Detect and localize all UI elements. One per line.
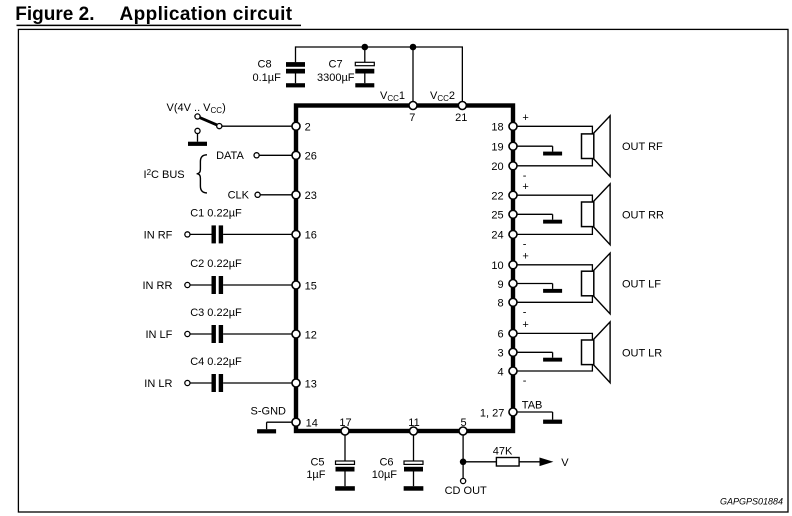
svg-text:4: 4 bbox=[497, 366, 503, 378]
pin 12 bbox=[292, 329, 317, 341]
IC body (power amplifier) bbox=[296, 106, 513, 432]
label C6 10µF bbox=[372, 457, 398, 481]
svg-text:OUT LF: OUT LF bbox=[622, 279, 661, 291]
wire to Vcc2 pin 21 bbox=[461, 47, 463, 106]
svg-text:7: 7 bbox=[409, 112, 415, 124]
pin 2 bbox=[292, 122, 311, 134]
junction at C7 top bbox=[362, 44, 369, 51]
svg-text:S-GND: S-GND bbox=[251, 406, 287, 418]
pin 20 bbox=[491, 161, 517, 173]
speaker LS1 bbox=[582, 116, 611, 177]
wire pin 3 to ground bbox=[513, 352, 553, 357]
capacitor C5 (electrolytic) bbox=[336, 461, 355, 486]
svg-text:C6: C6 bbox=[379, 457, 393, 469]
ground (switch) bbox=[188, 142, 207, 146]
svg-text:IN LF: IN LF bbox=[145, 329, 172, 341]
pin 15 bbox=[292, 280, 317, 292]
pin 10 bbox=[491, 260, 517, 272]
pin 22 bbox=[491, 191, 517, 203]
wire junction to R1 bbox=[463, 461, 496, 463]
title: Figure 2. Application circuit bbox=[15, 4, 301, 26]
capacitor C8 bbox=[286, 62, 305, 83]
pin 1, 27 (TAB) bbox=[480, 407, 517, 419]
label C5 1µF bbox=[306, 457, 325, 481]
svg-text:9: 9 bbox=[497, 279, 503, 291]
svg-text:CLK: CLK bbox=[228, 190, 250, 202]
svg-text:3300µF: 3300µF bbox=[317, 72, 355, 84]
svg-text:20: 20 bbox=[491, 161, 503, 173]
pin 24 bbox=[491, 230, 517, 242]
svg-text:2: 2 bbox=[305, 122, 311, 134]
pin 25 bbox=[491, 210, 517, 222]
svg-text:24: 24 bbox=[491, 230, 503, 242]
capacitor C4 bbox=[212, 374, 224, 392]
capacitor C1 bbox=[212, 225, 224, 243]
capacitor C2 bbox=[212, 276, 224, 294]
svg-text:+: + bbox=[522, 251, 528, 263]
svg-text:19: 19 bbox=[491, 142, 503, 154]
svg-text:OUT RR: OUT RR bbox=[622, 209, 664, 221]
wire pin 25 to ground bbox=[513, 214, 553, 219]
svg-text:C2 0.22µF: C2 0.22µF bbox=[190, 258, 242, 270]
svg-text:11: 11 bbox=[408, 417, 419, 429]
wire C8 top lead bbox=[295, 46, 297, 62]
wire DATA to pin 26 bbox=[259, 154, 294, 156]
pin 4 bbox=[497, 366, 517, 378]
terminal IN RR bbox=[185, 282, 190, 287]
pin 8 bbox=[497, 298, 517, 310]
wire C7 top lead bbox=[364, 47, 366, 63]
pin 21 bbox=[455, 102, 467, 124]
pin 3 bbox=[497, 348, 517, 360]
svg-text:18: 18 bbox=[491, 122, 503, 134]
svg-text:GAPGPS01884: GAPGPS01884 bbox=[720, 497, 783, 507]
svg-text:1µF: 1µF bbox=[306, 469, 325, 481]
label C7 3300µF bbox=[317, 59, 355, 85]
terminal IN LF bbox=[185, 331, 190, 336]
svg-text:0.1µF: 0.1µF bbox=[253, 72, 282, 84]
svg-text:10: 10 bbox=[491, 260, 503, 272]
arrow to V bbox=[540, 458, 554, 467]
svg-text:14: 14 bbox=[306, 418, 318, 430]
speaker LS3 bbox=[582, 253, 611, 314]
label C8 0.1µF bbox=[253, 59, 282, 85]
svg-text:15: 15 bbox=[305, 280, 317, 292]
svg-text:25: 25 bbox=[491, 210, 503, 222]
svg-text:17: 17 bbox=[339, 417, 351, 429]
pin 16 bbox=[292, 230, 317, 242]
pin 19 bbox=[491, 142, 517, 154]
wire C1 to pin 16 bbox=[223, 233, 294, 235]
pin 14 bbox=[292, 418, 318, 430]
ground (TAB) bbox=[543, 420, 562, 424]
wire to Vcc1 pin 7 bbox=[412, 47, 414, 106]
wire pin 10 to speaker + bbox=[513, 265, 592, 303]
svg-text:TAB: TAB bbox=[522, 399, 543, 411]
svg-text:6: 6 bbox=[497, 329, 503, 341]
speaker LS2 bbox=[582, 184, 611, 245]
junction at pin 5 branch bbox=[460, 459, 467, 466]
svg-text:Application circuit: Application circuit bbox=[120, 4, 293, 25]
pin 11 bbox=[408, 417, 419, 435]
svg-text:CD OUT: CD OUT bbox=[445, 485, 487, 497]
svg-text:+: + bbox=[522, 319, 528, 331]
pin 5 bbox=[459, 417, 467, 435]
svg-text:IN RR: IN RR bbox=[142, 280, 172, 292]
svg-text:C1 0.22µF: C1 0.22µF bbox=[190, 208, 242, 220]
wire IN LF to C3 bbox=[190, 333, 212, 335]
svg-text:OUT LR: OUT LR bbox=[622, 347, 662, 359]
terminal CLK bbox=[255, 192, 260, 197]
svg-text:IN LR: IN LR bbox=[144, 378, 172, 390]
svg-text:-: - bbox=[523, 375, 527, 387]
capacitor C3 bbox=[212, 325, 224, 343]
wire CLK to pin 23 bbox=[260, 194, 294, 196]
terminal IN LR bbox=[185, 380, 190, 385]
wire switch to pin 2 bbox=[222, 125, 295, 127]
svg-text:3: 3 bbox=[497, 348, 503, 360]
svg-text:-: - bbox=[523, 306, 527, 318]
wire C4 to pin 13 bbox=[223, 382, 294, 384]
pin 9 bbox=[497, 279, 517, 291]
ground (pin 19) bbox=[543, 152, 562, 156]
junction above pin 7 bbox=[410, 44, 417, 51]
svg-text:IN RF: IN RF bbox=[144, 229, 173, 241]
wire pin lead to C5 bbox=[344, 433, 346, 461]
svg-text:12: 12 bbox=[305, 329, 317, 341]
speaker LS4 bbox=[582, 322, 611, 383]
svg-text:21: 21 bbox=[455, 112, 467, 124]
wire pin 5 down bbox=[462, 433, 464, 478]
svg-text:Figure 2.: Figure 2. bbox=[15, 4, 94, 25]
capacitor C7 (electrolytic) bbox=[355, 62, 374, 83]
switch SW (to pin 2) bbox=[195, 114, 222, 142]
wire C3 to pin 12 bbox=[223, 333, 294, 335]
svg-text:16: 16 bbox=[305, 230, 317, 242]
svg-text:C7: C7 bbox=[329, 59, 343, 71]
pin 17 bbox=[339, 417, 351, 435]
wire R1 to V arrow bbox=[519, 461, 540, 463]
terminal DATA bbox=[254, 153, 259, 158]
svg-text:26: 26 bbox=[305, 151, 317, 163]
wire C2 to pin 15 bbox=[223, 284, 294, 286]
svg-text:5: 5 bbox=[460, 417, 466, 429]
resistor R1 47K bbox=[496, 458, 519, 467]
terminal CD OUT bbox=[461, 478, 466, 483]
wire pin lead to C6 bbox=[413, 433, 415, 461]
wire TAB to ground bbox=[517, 412, 553, 420]
ground (pin 9) bbox=[543, 289, 562, 293]
wire IN LR to C4 bbox=[190, 382, 212, 384]
pin 26 bbox=[292, 151, 317, 163]
ground (C8) bbox=[286, 83, 305, 87]
wire pin 18 to speaker + bbox=[513, 126, 592, 166]
brace I2C bus bbox=[197, 155, 207, 193]
pin 23 bbox=[292, 190, 317, 202]
svg-text:13: 13 bbox=[305, 378, 317, 390]
ground (C6) bbox=[404, 486, 424, 491]
svg-text:DATA: DATA bbox=[216, 150, 244, 162]
pin 7 bbox=[409, 102, 417, 124]
svg-text:+: + bbox=[522, 112, 528, 124]
svg-text:8: 8 bbox=[497, 298, 503, 310]
svg-text:V: V bbox=[561, 457, 569, 469]
svg-text:C4 0.22µF: C4 0.22µF bbox=[190, 356, 242, 368]
ground (C5) bbox=[335, 486, 355, 491]
ground (pin 25) bbox=[543, 220, 562, 224]
wire S-GND bbox=[267, 422, 292, 429]
pin 13 bbox=[292, 378, 317, 390]
svg-text:C8: C8 bbox=[258, 59, 272, 71]
wire IN RF to C1 bbox=[190, 233, 212, 235]
wire pin 22 to speaker + bbox=[513, 195, 592, 234]
pin 18 bbox=[491, 122, 517, 134]
ground (S-GND) bbox=[257, 429, 276, 433]
pin 6 bbox=[497, 329, 517, 341]
wire IN RR to C2 bbox=[190, 284, 212, 286]
wire Vcc rail bbox=[296, 46, 464, 48]
svg-text:22: 22 bbox=[491, 191, 503, 203]
svg-text:C5: C5 bbox=[310, 457, 324, 469]
svg-text:-: - bbox=[523, 238, 527, 250]
capacitor C6 (electrolytic) bbox=[404, 461, 423, 486]
svg-text:23: 23 bbox=[305, 190, 317, 202]
wire pin 6 to speaker + bbox=[513, 333, 592, 371]
wire pin 9 to ground bbox=[513, 284, 553, 289]
svg-text:+: + bbox=[522, 181, 528, 193]
ground (pin 3) bbox=[543, 358, 562, 362]
svg-text:10µF: 10µF bbox=[372, 469, 398, 481]
svg-text:1, 27: 1, 27 bbox=[480, 407, 504, 419]
svg-text:OUT RF: OUT RF bbox=[622, 141, 663, 153]
ground (C7) bbox=[355, 83, 374, 87]
terminal IN RF bbox=[185, 232, 190, 237]
svg-text:C3 0.22µF: C3 0.22µF bbox=[190, 307, 242, 319]
svg-text:47K: 47K bbox=[493, 445, 513, 457]
wire pin 19 to ground bbox=[513, 146, 553, 151]
